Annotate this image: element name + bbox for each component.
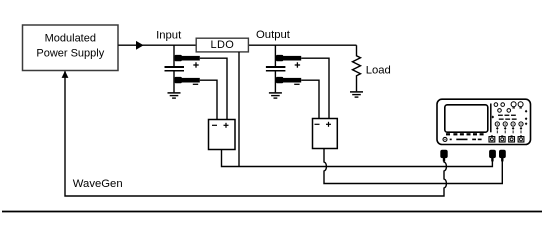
svg-text:Input: Input <box>156 29 182 41</box>
svg-text:Load: Load <box>366 64 391 76</box>
svg-text:WaveGen: WaveGen <box>73 178 123 190</box>
svg-text:Power Supply: Power Supply <box>36 47 104 59</box>
svg-text:Output: Output <box>256 29 291 41</box>
svg-text:LDO: LDO <box>211 39 235 51</box>
svg-text:Modulated: Modulated <box>45 32 96 44</box>
